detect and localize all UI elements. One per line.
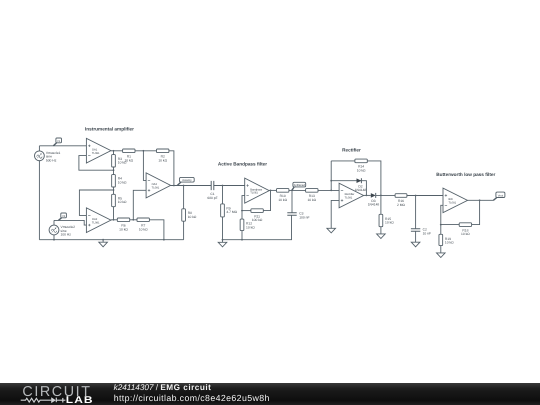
capacitor C3 xyxy=(287,190,309,219)
wire R1-R2 xyxy=(135,150,157,152)
op-amp Bandpass xyxy=(245,178,270,203)
svg-text:1N4148: 1N4148 xyxy=(368,203,380,207)
wire BW - to feedback xyxy=(441,205,443,224)
svg-text:10 kΩ: 10 kΩ xyxy=(118,180,127,184)
svg-text:10 kΩ: 10 kΩ xyxy=(278,198,287,202)
node D2 branch xyxy=(330,180,332,182)
node R1R2 xyxy=(143,150,145,152)
wire V1 to OA1 + xyxy=(39,145,86,147)
op-amp OA3 xyxy=(146,173,171,198)
node OA1 out xyxy=(113,150,115,152)
node feedback R3R4 xyxy=(113,169,115,171)
resistor R2 xyxy=(157,149,169,162)
svg-text:10 kΩ: 10 kΩ xyxy=(158,158,167,162)
node R12-rail xyxy=(241,239,243,241)
svg-text:LAB: LAB xyxy=(66,395,94,405)
svg-text:k24114307 / EMG circuit: k24114307 / EMG circuit xyxy=(114,383,212,392)
wire R14 feedback top xyxy=(331,160,355,162)
wire R4-R5 xyxy=(113,187,115,194)
svg-text:10 kΩ: 10 kΩ xyxy=(188,215,197,219)
svg-text:500 Hz: 500 Hz xyxy=(46,158,57,162)
voltage source V1 xyxy=(35,146,45,161)
wire R3-R4 xyxy=(113,167,115,175)
svg-text:100 Hz: 100 Hz xyxy=(61,233,72,237)
node R11 feedback xyxy=(270,190,272,192)
node BW out feedback xyxy=(479,199,481,201)
wire R10 to R13 xyxy=(289,189,306,191)
wire R13 to rect - xyxy=(318,189,339,191)
resistor R19 xyxy=(439,225,454,253)
svg-text:Active Bandpass filter: Active Bandpass filter xyxy=(218,162,267,167)
op-amp OA2 xyxy=(86,208,111,233)
wire rect + to ground xyxy=(331,200,339,228)
svg-text:10 kΩ: 10 kΩ xyxy=(124,158,133,162)
svg-text:Rectifier: Rectifier xyxy=(342,148,361,153)
wire R16 to BW + xyxy=(407,195,443,197)
flag bandpassed xyxy=(292,182,306,190)
wire rect - vertical xyxy=(330,161,332,191)
node R2 feedback xyxy=(173,185,175,187)
resistor R14 xyxy=(355,159,367,172)
svg-text:TL081: TL081 xyxy=(250,192,258,195)
wire bandpass - to R11/R12 xyxy=(242,196,245,211)
ground G3 xyxy=(327,228,336,233)
wire V2 to OA2 + xyxy=(54,220,86,225)
node V2-rail xyxy=(53,239,55,241)
svg-text:10 kΩ: 10 kΩ xyxy=(139,227,148,231)
svg-text:10 kΩ: 10 kΩ xyxy=(307,198,316,202)
node R5-OA2out xyxy=(113,219,115,221)
node C1-R9 xyxy=(222,185,224,187)
wire down to R3 xyxy=(113,151,115,155)
svg-text:2 MΩ: 2 MΩ xyxy=(397,203,405,207)
resistor R5 xyxy=(112,194,127,206)
wire R7 to rail xyxy=(149,220,164,240)
ground G5 xyxy=(411,242,420,247)
node R8 top xyxy=(183,185,185,187)
svg-text:Instrumental amplifier: Instrumental amplifier xyxy=(85,127,134,132)
ground G1 xyxy=(99,240,108,247)
resistor R15 xyxy=(379,214,394,234)
resistor R4 xyxy=(112,175,127,187)
diode D2 xyxy=(331,178,366,195)
op-amp Rectifier xyxy=(339,183,364,208)
svg-text:4.7 MΩ: 4.7 MΩ xyxy=(226,210,237,214)
resistor R1 xyxy=(123,149,135,162)
svg-text:TL081: TL081 xyxy=(92,221,100,224)
svg-text:10 kΩ: 10 kΩ xyxy=(357,168,366,172)
node C2 xyxy=(415,195,417,197)
node R4R5 xyxy=(113,189,115,191)
svg-text:10 kΩ: 10 kΩ xyxy=(118,200,127,204)
resistor R12 xyxy=(240,211,255,240)
svg-text:Butterworth low pass filter: Butterworth low pass filter xyxy=(436,172,495,177)
logo diode xyxy=(51,397,56,403)
node rect minus xyxy=(330,190,332,192)
svg-text:bpfiltered: bpfiltered xyxy=(294,184,306,187)
wire bandpass out xyxy=(269,189,276,191)
op-amp BW xyxy=(443,188,468,213)
wire C1 to bandpass + xyxy=(214,185,245,187)
svg-text:V2: V2 xyxy=(62,215,66,218)
svg-text:instamp: instamp xyxy=(182,179,192,182)
ground G6 xyxy=(437,253,446,258)
wire BW out xyxy=(468,199,494,201)
svg-text:TL081: TL081 xyxy=(152,187,160,190)
flag instamp xyxy=(177,177,194,185)
svg-text:680 pF: 680 pF xyxy=(207,196,217,200)
capacitor C2 xyxy=(411,196,431,243)
node feedback xyxy=(440,224,442,226)
wire OA3 out to C1 xyxy=(171,185,212,187)
wire down to OA3 - xyxy=(143,151,146,181)
wire R2 right to output xyxy=(169,151,174,186)
resistor R6 xyxy=(117,218,129,231)
diode D3 xyxy=(368,193,380,207)
flag Vout xyxy=(493,192,505,200)
svg-text:100 kΩ: 100 kΩ xyxy=(252,218,263,222)
ground G4 xyxy=(377,234,386,239)
op-amp OA1 xyxy=(86,138,111,163)
svg-text:10 kΩ: 10 kΩ xyxy=(445,241,454,245)
wire OA1 output xyxy=(111,150,123,152)
resistor R3 xyxy=(112,155,127,167)
svg-text:10 nF: 10 nF xyxy=(423,231,431,235)
resistor R9 xyxy=(221,186,238,240)
wire V1 bottom to rail xyxy=(38,160,40,239)
resistor R18 xyxy=(441,200,480,236)
wire to OA2 - xyxy=(79,190,113,215)
voltage source V2 xyxy=(49,220,59,235)
svg-text:10 kΩ: 10 kΩ xyxy=(461,232,470,236)
wire R14 right down xyxy=(367,161,381,214)
wire R5 bottom xyxy=(113,207,115,220)
flag V1 xyxy=(53,138,61,146)
logo resistor squiggle xyxy=(21,398,66,403)
wire OA1 - feedback loop xyxy=(79,156,114,171)
svg-text:10 kΩ: 10 kΩ xyxy=(385,221,394,225)
node R11R12 xyxy=(241,210,243,212)
node rail-ground xyxy=(102,239,104,241)
node bandpassed xyxy=(291,190,293,192)
resistor R8 xyxy=(182,186,197,240)
wire V2 bottom xyxy=(53,235,55,240)
resistor R10 xyxy=(277,189,289,202)
resistor R7 xyxy=(137,218,149,231)
svg-text:10 kΩ: 10 kΩ xyxy=(119,227,128,231)
flag V2 xyxy=(58,213,66,221)
svg-text:Vout: Vout xyxy=(498,194,504,197)
wire R6-R7 xyxy=(130,219,137,221)
node rect output xyxy=(380,195,382,197)
svg-text:100 nF: 100 nF xyxy=(299,215,309,219)
wire rect out xyxy=(364,194,371,196)
node D2 out xyxy=(366,195,368,197)
svg-text:TL081: TL081 xyxy=(345,197,353,200)
wire to OA3 + xyxy=(133,190,146,220)
ground G2 xyxy=(218,240,227,247)
ground rail 1 xyxy=(39,239,183,241)
wire D3 to R16 xyxy=(376,194,395,196)
node R9-rail xyxy=(222,239,224,241)
resistor R13 xyxy=(306,189,318,202)
svg-text:V1: V1 xyxy=(57,140,61,143)
ground rail 2 xyxy=(223,215,292,239)
node R7-rail xyxy=(163,239,165,241)
node R6R7 xyxy=(132,219,134,221)
svg-text:TL081: TL081 xyxy=(92,152,100,155)
svg-text:http://circuitlab.com/c8e42e62: http://circuitlab.com/c8e42e62u5w8h xyxy=(114,393,270,403)
resistor R16 xyxy=(395,194,407,207)
resistor R11 xyxy=(242,190,271,222)
wire OA2 out xyxy=(111,219,117,221)
svg-text:TL081: TL081 xyxy=(449,202,457,205)
capacitor C1 xyxy=(207,181,217,200)
svg-text:10 kΩ: 10 kΩ xyxy=(246,225,255,229)
